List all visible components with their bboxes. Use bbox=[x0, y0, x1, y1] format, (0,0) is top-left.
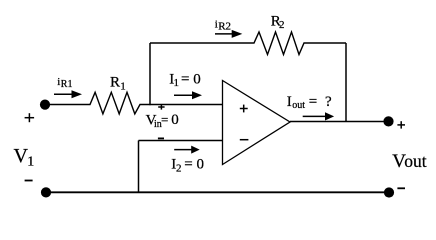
svg-text:= 0: = 0 bbox=[181, 71, 201, 87]
current arrow I1 bbox=[174, 91, 202, 99]
svg-text:I: I bbox=[287, 94, 292, 110]
wire bottom rail bbox=[46, 191, 389, 193]
node polarity minus below Vin bbox=[158, 137, 164, 139]
svg-text:= 0: = 0 bbox=[184, 157, 204, 173]
wire inverting input vertical drop bbox=[138, 141, 140, 194]
node dot Vout minus terminal bbox=[384, 187, 394, 197]
wire noninverting input with resistor R1 zigzag bbox=[45, 92, 223, 114]
current arrow iR2 bbox=[215, 30, 242, 38]
wire inverting input horizontal bbox=[139, 140, 223, 142]
current arrow I2 bbox=[174, 146, 200, 154]
node polarity plus above Vin bbox=[158, 105, 164, 110]
current arrow Iout bbox=[303, 112, 334, 120]
node dot V1 minus terminal bbox=[41, 187, 51, 197]
op-amp U1 triangle bbox=[223, 81, 291, 165]
svg-text:1: 1 bbox=[174, 77, 180, 89]
svg-text:R2: R2 bbox=[218, 20, 231, 32]
wire top feedback with resistor R2 zigzag bbox=[150, 32, 346, 55]
svg-text:R1: R1 bbox=[61, 79, 73, 90]
svg-text:out: out bbox=[292, 100, 305, 111]
node dot Vout plus terminal bbox=[383, 116, 393, 126]
svg-text:V: V bbox=[14, 145, 29, 167]
op-amp plus input sign bbox=[240, 105, 248, 113]
svg-text:out: out bbox=[404, 151, 427, 171]
source minus sign left bbox=[25, 180, 33, 182]
svg-text:2: 2 bbox=[279, 19, 285, 31]
current arrow iR1 bbox=[54, 90, 82, 98]
wire right feedback vertical bbox=[345, 43, 347, 122]
svg-text:0: 0 bbox=[171, 112, 179, 128]
output minus sign right bbox=[397, 187, 405, 189]
source plus sign left bbox=[25, 113, 34, 122]
svg-text:=: = bbox=[161, 112, 168, 127]
output plus sign right bbox=[397, 121, 405, 128]
svg-text:=: = bbox=[309, 94, 317, 110]
wire output bbox=[290, 121, 389, 123]
op-amp minus input sign bbox=[240, 139, 249, 141]
svg-text:?: ? bbox=[325, 94, 332, 110]
svg-text:2: 2 bbox=[176, 162, 182, 174]
svg-text:1: 1 bbox=[27, 155, 34, 170]
wire left feedback vertical bbox=[149, 43, 151, 105]
node dot V1 plus terminal bbox=[40, 100, 50, 110]
svg-text:1: 1 bbox=[120, 80, 126, 92]
svg-text:R: R bbox=[110, 75, 120, 91]
